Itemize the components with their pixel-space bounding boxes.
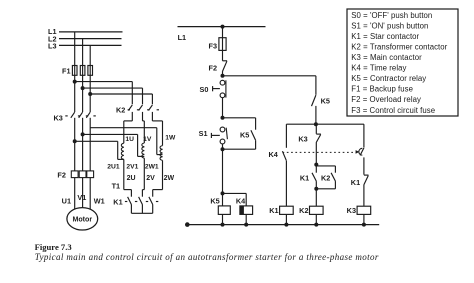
relay K5 coil — [222, 193, 224, 206]
wire mid branch to K2 coil — [315, 189, 317, 206]
svg-text:2W1: 2W1 — [145, 164, 159, 171]
wire motor lead W1 — [89, 178, 91, 211]
svg-text:V1: V1 — [77, 193, 86, 202]
wire left branch upper — [285, 124, 287, 148]
relay contact K5 latch (NO) — [251, 130, 256, 140]
wire motor lead U1 — [74, 178, 76, 211]
wire control return rail — [187, 224, 379, 226]
svg-text:K2: K2 — [116, 106, 125, 115]
wire overload to node — [222, 71, 224, 76]
svg-text:S0: S0 — [199, 85, 208, 94]
wire K3 contact to node — [315, 142, 317, 164]
wire fuse to overload contact — [222, 50, 224, 60]
svg-text:2U1: 2U1 — [107, 164, 120, 171]
svg-text:K1: K1 — [351, 178, 360, 187]
node junction to K2 phase 3 — [88, 92, 92, 96]
wire phase L2 — [59, 38, 122, 40]
contactor K1 contact 3 — [149, 197, 153, 205]
contactor K3 linkage dashes — [65, 115, 67, 117]
contactor K3 coil — [357, 206, 371, 214]
svg-text:F1 = Backup fuse: F1 = Backup fuse — [351, 85, 413, 94]
motor M1 — [67, 208, 98, 230]
overload relay F2 element 1 — [71, 171, 78, 178]
svg-text:U1: U1 — [62, 196, 71, 205]
transformer T1 winding 2 — [142, 143, 144, 158]
wire branch to K2 contact 1 — [75, 81, 133, 83]
wire winding3 bottom to K1 — [162, 160, 164, 189]
wire K2 contact2 to winding 1V — [142, 112, 144, 121]
node tap junction phase 2 — [81, 132, 85, 136]
svg-text:F2: F2 — [57, 171, 66, 180]
wire K2 coil to rail — [315, 214, 317, 224]
svg-text:S1: S1 — [199, 129, 208, 138]
node latch branch bottom — [221, 147, 225, 151]
transformer T1 winding 3 — [160, 146, 162, 161]
fuse F1 pole 1 — [72, 66, 77, 76]
wire branch to K2 contact 3 — [90, 93, 152, 95]
push button S1 (NO) — [220, 127, 225, 132]
wire star point — [130, 205, 132, 214]
wire below K3 contact 3 — [89, 118, 91, 171]
wire latch branch bottom — [255, 140, 257, 149]
svg-text:F2 = Overload relay: F2 = Overload relay — [351, 95, 421, 104]
wire K4 coil to rail — [245, 214, 247, 224]
svg-text:K1: K1 — [269, 206, 278, 215]
contactor K1 linkage dashes — [125, 201, 127, 203]
wire parallel branch bottom — [316, 188, 335, 190]
wire phase drop 1 — [74, 32, 76, 112]
wire phase drop 3 — [89, 45, 91, 112]
wire tap lead B — [83, 133, 138, 135]
contact K1 NC (mid branch) — [315, 165, 317, 173]
fuse F3 — [219, 38, 226, 51]
transformer T1 winding 1 — [121, 143, 123, 159]
node mid rail junction — [314, 122, 318, 126]
contactor K3 NC contact — [316, 133, 321, 135]
svg-text:1V: 1V — [143, 136, 152, 143]
time relay K4 coil — [240, 206, 253, 215]
svg-text:K2: K2 — [299, 206, 308, 215]
svg-text:L1: L1 — [178, 33, 187, 42]
svg-text:W1: W1 — [94, 196, 105, 205]
svg-text:K2: K2 — [321, 173, 330, 182]
overload F2 NC contact — [223, 60, 228, 62]
node return rail terminal — [185, 222, 190, 227]
wire right branch to K3 coil — [363, 185, 365, 206]
svg-text:L3: L3 — [48, 41, 57, 50]
svg-text:2V: 2V — [146, 175, 155, 182]
wire K2 contact1 to winding 1U — [131, 112, 133, 121]
wire branch to K4 coil — [223, 192, 247, 194]
wire K5 contact to rail — [315, 106, 317, 124]
wire tap lead A — [75, 140, 118, 142]
wire delayed contact to K1 contact — [363, 157, 365, 174]
contactor K5 main contact (NO) — [312, 95, 316, 106]
node rail-K3 — [362, 223, 366, 227]
svg-text:F2: F2 — [208, 64, 217, 73]
svg-text:S0 = 'OFF' push button: S0 = 'OFF' push button — [351, 11, 432, 20]
wire K5 coil to rail — [222, 214, 224, 224]
time relay K4 delayed contact — [356, 150, 360, 154]
push button S0 (NC) — [220, 80, 225, 85]
wire K2 contact3 to winding 1W — [151, 112, 153, 121]
svg-text:K3: K3 — [53, 113, 62, 122]
wire latch branch top — [223, 117, 256, 119]
svg-text:K3: K3 — [298, 134, 307, 143]
wire phase L1 — [59, 31, 123, 33]
svg-text:F3: F3 — [208, 41, 217, 50]
wire right branch upper — [363, 124, 365, 147]
wire motor lead V1 — [82, 178, 84, 209]
wire control mid rail — [286, 123, 364, 125]
legend box — [347, 9, 458, 116]
node rail-K5 — [221, 223, 225, 227]
wire winding1 bottom to K1 — [123, 159, 125, 189]
contactor K3 contact 3 — [86, 112, 90, 118]
node control supply junction — [221, 25, 225, 29]
svg-text:K4: K4 — [236, 197, 246, 206]
contact K2 NC (parallel) — [331, 173, 335, 181]
wire winding2 bottom to K1 — [143, 158, 145, 189]
svg-text:K5: K5 — [321, 97, 330, 106]
svg-text:K4 = Time relay: K4 = Time relay — [351, 64, 406, 73]
wire branch to K5 main contact — [223, 75, 316, 77]
node branch to K5 contact — [221, 74, 225, 78]
wire phase drop 2 — [82, 39, 84, 112]
svg-text:F3 = Control circuit fuse: F3 = Control circuit fuse — [351, 106, 435, 115]
node rail-K2 — [314, 223, 318, 227]
wire S1 to coils — [222, 144, 224, 149]
svg-text:K3 = Main contactor: K3 = Main contactor — [351, 53, 422, 62]
svg-text:K1 = Star contactor: K1 = Star contactor — [351, 32, 419, 41]
svg-text:K3: K3 — [347, 206, 356, 215]
svg-text:Figure 7.3: Figure 7.3 — [35, 242, 72, 252]
wire to fuse F3 — [222, 27, 224, 38]
node coil branch — [221, 191, 225, 195]
fuse F1 pole 2 — [80, 66, 85, 76]
node rail-K1 — [284, 223, 288, 227]
svg-text:K1: K1 — [113, 197, 122, 206]
contactor K2 coil — [310, 206, 324, 214]
contactor K2 contact 2 — [139, 105, 143, 111]
svg-text:Typical main and control circu: Typical main and control circuit of an a… — [35, 252, 379, 262]
svg-text:K5: K5 — [210, 197, 219, 206]
node junction to K2 phase 2 — [81, 86, 85, 90]
svg-text:1W: 1W — [165, 135, 176, 142]
wire parallel branch top — [316, 165, 335, 167]
svg-text:2U: 2U — [127, 175, 136, 182]
svg-text:S1 = 'ON' push button: S1 = 'ON' push button — [351, 21, 428, 30]
wire phase L3 — [59, 44, 122, 46]
wire tap lead C — [90, 127, 157, 129]
svg-text:K1: K1 — [300, 173, 309, 182]
svg-text:Motor: Motor — [72, 216, 92, 224]
time relay K4 contact (NO) — [282, 151, 286, 161]
node tap junction phase 1 — [73, 139, 77, 143]
node junction to K2 phase 1 — [73, 80, 77, 84]
contactor K1 contact 2 — [139, 197, 143, 205]
node latch branch top — [221, 116, 225, 120]
wire K1 coil to rail — [285, 214, 287, 224]
overload relay F2 element 2 — [79, 171, 86, 178]
contactor K3 contact 1 — [71, 112, 75, 118]
svg-text:F1: F1 — [62, 67, 71, 76]
wire branch to K2 contact 2 — [83, 87, 143, 89]
svg-text:T1: T1 — [112, 181, 121, 190]
fuse F1 pole 3 — [88, 66, 93, 76]
svg-text:K5: K5 — [240, 131, 249, 140]
contactor K1 coil — [280, 206, 294, 214]
contactor K3 contact 2 — [79, 112, 83, 118]
node K1/K2 parallel bottom — [314, 187, 318, 191]
node K1/K2 parallel top — [314, 163, 318, 167]
svg-text:2V1: 2V1 — [126, 164, 138, 171]
contactor K1 contact 1 — [128, 197, 132, 205]
svg-text:K2 = Transformer contactor: K2 = Transformer contactor — [351, 42, 447, 51]
svg-text:K4: K4 — [268, 150, 278, 159]
wire K3 coil to rail — [363, 214, 365, 224]
time relay K4 linkage dashed line — [283, 151, 357, 153]
wire below K3 contact 1 — [74, 118, 76, 171]
wire left branch to K1 coil — [285, 161, 287, 206]
contactor K2 contact 3 — [149, 105, 153, 111]
svg-text:1U: 1U — [125, 136, 134, 143]
contactor K2 linkage dashes — [128, 109, 130, 111]
svg-text:K5 = Contractor relay: K5 = Contractor relay — [351, 74, 426, 83]
contact K1 NC (right branch) — [364, 174, 369, 176]
node rail-K4 — [244, 223, 248, 227]
wire mid branch upper — [315, 124, 317, 134]
overload relay F2 element 3 — [87, 171, 94, 178]
svg-text:2W: 2W — [164, 175, 175, 182]
wire S0 to node — [222, 98, 224, 118]
contactor K2 contact 1 — [128, 105, 132, 111]
wire control supply rail — [178, 26, 266, 28]
wire below K3 contact 2 — [82, 118, 84, 171]
